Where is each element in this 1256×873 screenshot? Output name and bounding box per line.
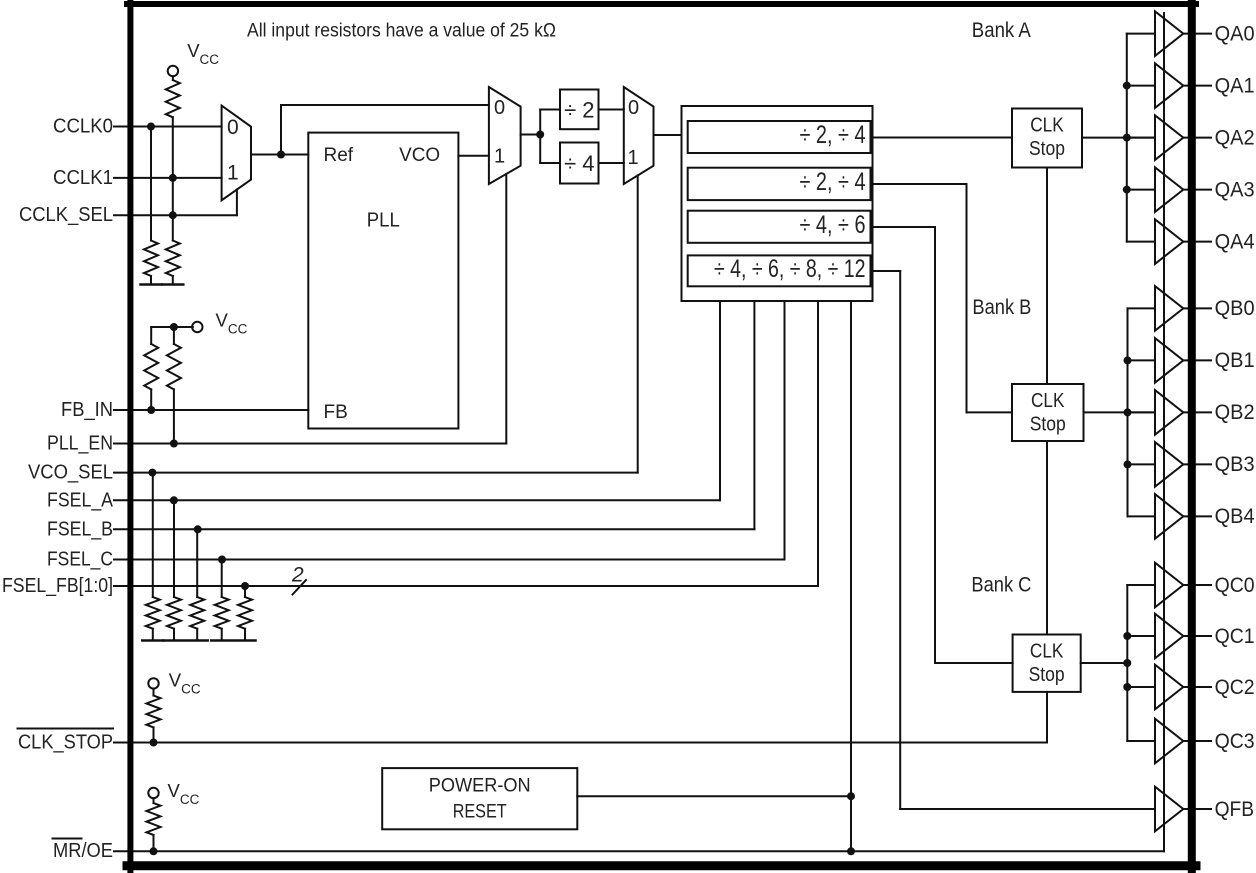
- svg-text:QB0: QB0: [1215, 297, 1255, 320]
- svg-text:QC3: QC3: [1215, 730, 1255, 753]
- svg-text:QA0: QA0: [1215, 22, 1255, 45]
- svg-text:Bank C: Bank C: [971, 574, 1031, 597]
- svg-text:Bank A: Bank A: [972, 19, 1031, 42]
- svg-text:1: 1: [627, 147, 638, 169]
- svg-text:QA4: QA4: [1215, 230, 1255, 253]
- svg-text:CLK: CLK: [1030, 115, 1064, 137]
- svg-text:0: 0: [494, 97, 505, 119]
- svg-text:÷ 4: ÷ 4: [564, 151, 594, 176]
- svg-text:QA1: QA1: [1215, 74, 1255, 97]
- svg-text:QC2: QC2: [1215, 676, 1255, 699]
- svg-text:QC1: QC1: [1215, 625, 1255, 648]
- svg-text:CLK: CLK: [1030, 641, 1064, 663]
- svg-text:MR/OE: MR/OE: [53, 840, 113, 862]
- svg-text:QB2: QB2: [1215, 401, 1255, 424]
- svg-text:FSEL_C: FSEL_C: [47, 549, 113, 571]
- svg-text:÷ 2, ÷ 4: ÷ 2, ÷ 4: [800, 168, 866, 196]
- svg-text:÷ 4, ÷ 6, ÷ 8, ÷ 12: ÷ 4, ÷ 6, ÷ 8, ÷ 12: [714, 255, 866, 283]
- svg-text:QC0: QC0: [1215, 574, 1255, 597]
- svg-text:FSEL_B: FSEL_B: [47, 518, 113, 540]
- svg-text:PLL_EN: PLL_EN: [47, 433, 113, 455]
- svg-text:0: 0: [227, 116, 239, 139]
- svg-text:RESET: RESET: [453, 802, 507, 823]
- svg-text:POWER-ON: POWER-ON: [429, 776, 531, 797]
- svg-text:1: 1: [494, 146, 505, 168]
- svg-text:FSEL_FB[1:0]: FSEL_FB[1:0]: [2, 575, 113, 597]
- svg-text:FB: FB: [324, 402, 348, 423]
- svg-text:Ref: Ref: [324, 145, 354, 166]
- svg-text:VCO: VCO: [399, 145, 440, 166]
- svg-text:QFB: QFB: [1215, 798, 1255, 821]
- svg-text:CLK_STOP: CLK_STOP: [18, 732, 113, 754]
- svg-text:VCO_SEL: VCO_SEL: [28, 462, 113, 484]
- svg-text:Stop: Stop: [1029, 138, 1065, 160]
- svg-text:All input resistors have a val: All input resistors have a value of 25 k…: [247, 20, 556, 41]
- svg-text:CCLK_SEL: CCLK_SEL: [19, 204, 113, 226]
- svg-text:QB1: QB1: [1215, 349, 1255, 372]
- svg-text:QB4: QB4: [1215, 505, 1255, 528]
- svg-text:Bank B: Bank B: [972, 296, 1031, 319]
- svg-text:1: 1: [227, 162, 239, 185]
- svg-text:QA2: QA2: [1215, 126, 1255, 149]
- svg-text:FB_IN: FB_IN: [61, 399, 113, 421]
- svg-text:QA3: QA3: [1215, 178, 1255, 201]
- svg-text:CLK: CLK: [1031, 390, 1065, 412]
- svg-text:0: 0: [628, 97, 639, 119]
- svg-text:FSEL_A: FSEL_A: [47, 489, 114, 511]
- svg-text:Stop: Stop: [1030, 414, 1066, 436]
- svg-text:QB3: QB3: [1215, 453, 1255, 476]
- svg-text:CCLK0: CCLK0: [53, 116, 113, 138]
- svg-text:Stop: Stop: [1029, 664, 1065, 686]
- svg-text:CCLK1: CCLK1: [53, 167, 113, 189]
- svg-text:÷ 2, ÷ 4: ÷ 2, ÷ 4: [800, 121, 866, 149]
- svg-text:PLL: PLL: [367, 210, 400, 232]
- svg-text:÷ 4, ÷ 6: ÷ 4, ÷ 6: [800, 211, 866, 239]
- svg-text:÷ 2: ÷ 2: [564, 98, 594, 123]
